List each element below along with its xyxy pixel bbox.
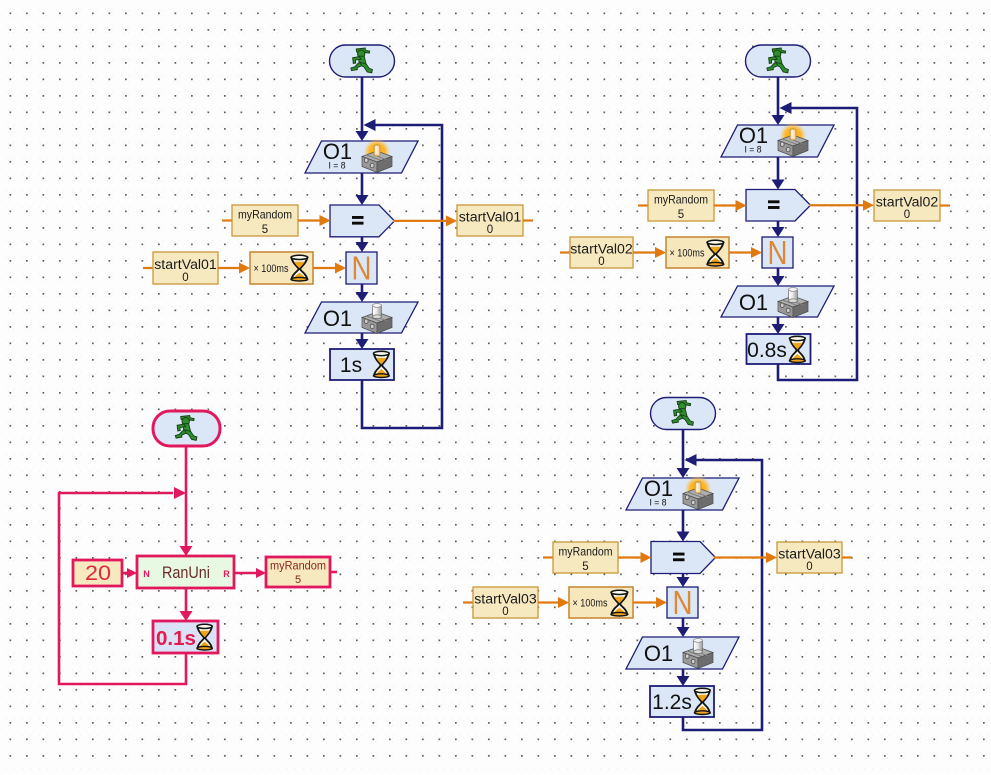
assignment block = group 1 [330, 205, 395, 237]
orange wire to x100ms [218, 263, 250, 274]
assignment block = group 3 [651, 542, 716, 574]
wait block 0.8s group 2 [747, 334, 811, 364]
svg-text:I = 8: I = 8 [650, 498, 667, 509]
counter block N group 2 [762, 234, 793, 271]
variable box myRandom pink [266, 557, 337, 587]
timebase box x 100ms [569, 587, 633, 618]
svg-text:R: R [223, 569, 230, 579]
wire [772, 268, 785, 286]
orange wire = to startVal03 [714, 552, 777, 563]
svg-text:N: N [143, 569, 150, 579]
svg-text:I = 8: I = 8 [745, 145, 762, 156]
assignment block = group 2 [746, 190, 811, 222]
constant box 20 [73, 560, 122, 586]
orange wire = to startVal02 [809, 200, 874, 211]
pink wire RanUni to myRandom [234, 568, 266, 578]
svg-text:startVal03: startVal03 [474, 592, 537, 607]
pink loop-back wire [59, 487, 186, 684]
svg-text:5: 5 [582, 561, 588, 573]
output block O1 lamp group 2 [721, 123, 834, 157]
wire [772, 317, 785, 334]
svg-text:startVal02: startVal02 [570, 242, 633, 257]
svg-text:× 100ms: × 100ms [670, 248, 705, 260]
svg-text:RanUni: RanUni [162, 564, 210, 582]
orange wire myRandom to = [714, 200, 747, 211]
variable box myRandom group 3 [543, 542, 618, 573]
wire from start to lamp output [677, 430, 690, 479]
svg-text:startVal03: startVal03 [778, 547, 841, 562]
svg-text:20: 20 [85, 562, 111, 585]
output block O1 motor group 3 [626, 637, 739, 669]
svg-text:0: 0 [502, 606, 508, 618]
wire [677, 669, 690, 686]
output block O1 lamp group 3 [626, 476, 739, 510]
output block O1 lamp group 1 [305, 139, 418, 173]
svg-text:O1: O1 [644, 641, 673, 666]
pink wire start to RanUni [180, 446, 193, 556]
svg-text:0.1s: 0.1s [156, 628, 196, 650]
orange wire to x100ms [633, 247, 666, 258]
svg-text:myRandom: myRandom [270, 561, 326, 573]
svg-text:0: 0 [182, 272, 188, 284]
wait block 0.1s pink [153, 621, 218, 653]
start symbol group 2 [746, 45, 811, 77]
svg-text:N: N [673, 584, 693, 621]
wire [772, 221, 785, 237]
wire [677, 510, 690, 542]
loop-back wire [362, 119, 442, 428]
wire from start to lamp output [772, 77, 785, 125]
wire [677, 618, 690, 637]
orange wire myRandom to = [298, 215, 331, 226]
start symbol group 3 [651, 398, 716, 430]
svg-text:I = 8: I = 8 [329, 161, 346, 172]
svg-text:0: 0 [806, 561, 812, 573]
svg-text:0.8s: 0.8s [747, 339, 787, 362]
wire from start to lamp output [356, 77, 369, 141]
orange wire = to startVal01 [393, 215, 457, 226]
svg-text:myRandom: myRandom [238, 208, 292, 222]
svg-text:5: 5 [678, 209, 684, 221]
svg-text:N: N [352, 250, 372, 287]
orange wire x100ms to N [313, 263, 346, 274]
svg-text:5: 5 [295, 574, 301, 586]
svg-text:myRandom: myRandom [559, 545, 613, 559]
timebase box x 100ms [250, 252, 313, 284]
wire [356, 237, 369, 252]
wire [356, 333, 369, 349]
svg-text:N: N [768, 234, 788, 271]
variable box myRandom group 2 [638, 190, 714, 221]
counter block N group 1 [346, 250, 377, 287]
svg-text:myRandom: myRandom [654, 193, 708, 207]
variable box startVal01 (input) [143, 252, 218, 284]
loop-back wire [683, 454, 762, 730]
svg-text:0: 0 [598, 256, 604, 268]
svg-text:O1: O1 [739, 290, 768, 315]
wait block 1s group 1 [330, 349, 394, 380]
svg-text:startVal01: startVal01 [459, 210, 522, 225]
timebase box x 100ms [666, 237, 729, 268]
svg-text:× 100ms: × 100ms [254, 263, 289, 275]
svg-text:startVal01: startVal01 [154, 257, 217, 272]
orange wire x100ms to N [633, 597, 667, 608]
svg-text:startVal02: startVal02 [876, 195, 939, 210]
start symbol pink group [153, 411, 220, 446]
wire [772, 157, 785, 190]
orange wire myRandom to = [618, 552, 652, 563]
variable box startVal03 (output) [777, 542, 852, 573]
svg-text:O1: O1 [323, 306, 352, 331]
counter block N group 3 [667, 584, 698, 621]
variable box startVal01 (output) [457, 205, 533, 236]
loop-back wire [778, 102, 857, 380]
svg-text:× 100ms: × 100ms [573, 598, 608, 610]
svg-text:1.2s: 1.2s [652, 691, 692, 714]
RanUni random block [137, 556, 234, 588]
wire [356, 284, 369, 302]
variable box startVal03 (input) [463, 587, 538, 618]
variable box myRandom group 1 [222, 205, 298, 236]
pink wire RanUni to wait [180, 588, 193, 621]
variable box startVal02 (output) [874, 190, 950, 221]
pink wire 20 to RanUni [122, 568, 137, 578]
svg-text:0: 0 [904, 209, 910, 221]
orange wire to x100ms [538, 597, 569, 608]
svg-text:5: 5 [262, 224, 268, 236]
start symbol group 1 [330, 45, 395, 77]
orange wire x100ms to N [729, 247, 762, 258]
wire [356, 173, 369, 205]
output block O1 motor group 1 [305, 302, 418, 334]
output block O1 motor group 2 [721, 286, 834, 318]
wire [677, 574, 690, 588]
variable box startVal02 (input) [560, 237, 633, 268]
svg-text:0: 0 [487, 224, 493, 236]
wait block 1.2s group 3 [650, 686, 714, 717]
svg-text:1s: 1s [340, 354, 362, 377]
